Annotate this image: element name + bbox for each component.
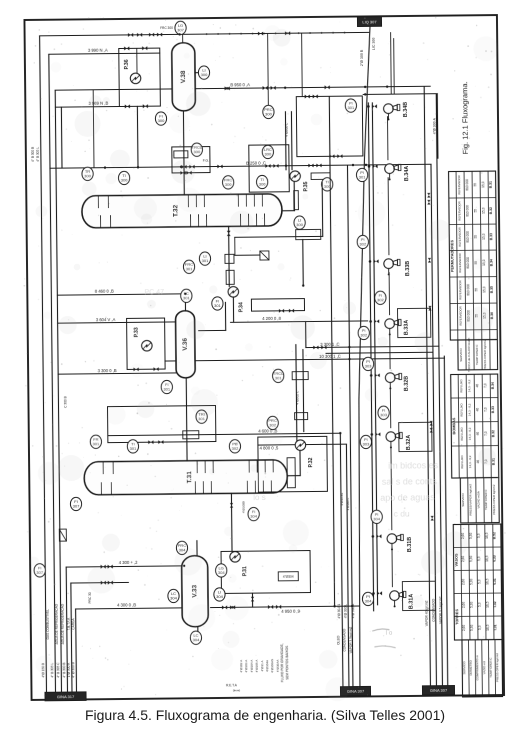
svg-text:4"Ø300 C: 4"Ø300 C [285, 122, 289, 137]
svg-text:46: 46 [476, 432, 480, 436]
svg-text:GAS COMBUSTIVEL: GAS COMBUSTIVEL [46, 609, 50, 640]
svg-text:4"Ø302 C: 4"Ø302 C [295, 390, 299, 405]
svg-text:DIAMETRO: DIAMETRO [469, 659, 473, 675]
svg-text:7,0: 7,0 [484, 431, 488, 436]
svg-text:SERVICO: SERVICO [459, 348, 463, 362]
svg-text:301: 301 [93, 441, 101, 446]
svg-text:c du: c du [394, 508, 410, 518]
svg-text:V.36: V.36 [182, 338, 189, 351]
svg-text:5,3: 5,3 [478, 602, 482, 607]
svg-text:810 000: 810 000 [466, 284, 470, 296]
svg-text:CARGA: CARGA [71, 617, 75, 629]
svg-text:VAPOR 3,5 kg/cm2: VAPOR 3,5 kg/cm2 [439, 596, 443, 624]
svg-text:B.33B: B.33B [405, 261, 411, 276]
svg-text:302: 302 [359, 242, 367, 247]
svg-text:B.33A: B.33A [404, 320, 410, 335]
svg-text:55: 55 [474, 235, 478, 239]
svg-text:B.34B: B.34B [403, 102, 409, 117]
svg-text:301: 301 [130, 446, 138, 451]
svg-text:REFERVEDOR: REFERVEDOR [457, 175, 461, 194]
svg-text:307: 307 [73, 504, 81, 509]
svg-text:15,0: 15,0 [482, 286, 486, 292]
svg-text:810 000: 810 000 [466, 231, 470, 243]
svg-text:REFLUXO: REFLUXO [459, 402, 463, 416]
svg-text:16,5: 16,5 [485, 555, 489, 561]
svg-text:Fig. 12.1 Fluxograma.: Fig. 12.1 Fluxograma. [460, 81, 470, 154]
svg-text:3 990 N ,A: 3 990 N ,A [88, 48, 108, 53]
svg-text:810 000: 810 000 [466, 257, 470, 269]
svg-text:(leve): (leve) [233, 688, 241, 692]
svg-text:301: 301 [348, 105, 356, 110]
svg-text:AGUA DE REFRIGERACAO: AGUA DE REFRIGERACAO [61, 603, 65, 644]
svg-text:COMPRIMENTO m: COMPRIMENTO m [475, 655, 479, 681]
svg-text:GINA 307: GINA 307 [430, 688, 448, 693]
svg-text:F.G.: F.G. [203, 159, 209, 163]
svg-text:300: 300 [193, 149, 201, 154]
svg-text:4" B 300 B: 4" B 300 B [31, 147, 35, 162]
svg-text:46: 46 [476, 408, 480, 412]
svg-text:P.34: P.34 [238, 302, 244, 312]
svg-text:5,3: 5,3 [477, 579, 481, 584]
svg-text:LIQ 307: LIQ 307 [362, 19, 377, 24]
svg-text:2,60: 2,60 [461, 579, 465, 585]
svg-text:300: 300 [84, 173, 92, 178]
svg-text:4 200 0 ,8: 4 200 0 ,8 [262, 316, 281, 321]
svg-text:304: 304 [250, 514, 258, 519]
svg-text:PRESS OPER kg/cm2: PRESS OPER kg/cm2 [483, 339, 487, 369]
svg-text:810 000: 810 000 [465, 179, 469, 191]
svg-text:B.32A: B.32A [406, 435, 412, 450]
svg-text:2,60: 2,60 [462, 625, 466, 631]
svg-text:303: 303 [380, 412, 388, 417]
svg-text:PRESS OPER kg/cm2: PRESS OPER kg/cm2 [495, 653, 499, 682]
svg-text:14,3 - 9,2: 14,3 - 9,2 [467, 403, 471, 416]
svg-text:TORRES: TORRES [455, 609, 459, 625]
svg-text:5,3: 5,3 [477, 533, 481, 538]
svg-text:4" B 305 L: 4" B 305 L [36, 147, 40, 162]
svg-text:REFLUXO: REFLUXO [460, 454, 464, 468]
svg-text:302: 302 [232, 446, 240, 451]
svg-text:TEMP OPER C: TEMP OPER C [489, 658, 493, 678]
svg-text:300: 300 [201, 72, 209, 77]
svg-text:PRC 30: PRC 30 [88, 592, 92, 603]
svg-text:301: 301 [359, 175, 367, 180]
svg-text:4"Ø31 A: 4"Ø31 A [260, 660, 264, 671]
svg-text:VAZIO m3: VAZIO m3 [482, 661, 486, 675]
svg-text:301: 301 [183, 295, 191, 300]
svg-text:4 300 + ,2: 4 300 + ,2 [119, 560, 138, 565]
svg-text:B 950 0 ,A: B 950 0 ,A [230, 82, 250, 87]
svg-text:apo de aguas: apo de aguas [380, 492, 435, 503]
svg-text:PERMUTADORES: PERMUTADORES [450, 240, 454, 273]
svg-text:P.32: P.32 [308, 457, 314, 467]
svg-text:304: 304 [170, 596, 178, 601]
svg-text:4 950 0 ,9: 4 950 0 ,9 [281, 609, 300, 614]
svg-text:3 300 1 ,C: 3 300 1 ,C [320, 342, 339, 347]
svg-text:SERVICO: SERVICO [462, 661, 466, 675]
svg-text:15,0: 15,0 [481, 207, 485, 213]
svg-text:55: 55 [473, 209, 477, 213]
svg-text:5,3: 5,3 [478, 625, 482, 630]
svg-text:TROCA de CALOR kcal/h: TROCA de CALOR kcal/h [467, 337, 471, 372]
svg-text:4"Ø302 A: 4"Ø302 A [239, 660, 243, 673]
svg-text:4" B 300 B: 4" B 300 B [62, 663, 66, 678]
svg-text:B.34: B.34 [490, 259, 494, 266]
svg-text:V.31: V.31 [493, 578, 497, 585]
svg-text:300: 300 [225, 182, 233, 187]
svg-text:55: 55 [474, 288, 478, 292]
svg-text:lo s: lo s [253, 493, 266, 502]
svg-text:4"Ø306AS: 4"Ø306AS [270, 659, 274, 673]
svg-text:B.33: B.33 [489, 233, 493, 240]
svg-text:B.32B: B.32B [404, 376, 410, 391]
svg-text:T.31: T.31 [186, 471, 193, 484]
svg-text:300: 300 [121, 178, 129, 183]
svg-text:301: 301 [202, 258, 210, 263]
svg-text:8 460 0 ,B: 8 460 0 ,B [95, 289, 114, 294]
svg-text:4"Ø304A: 4"Ø304A [265, 660, 269, 672]
svg-text:14,3 - 9,2: 14,3 - 9,2 [467, 379, 471, 392]
svg-text:B.31: B.31 [489, 181, 493, 188]
svg-text:B.34A: B.34A [404, 166, 410, 181]
svg-text:302: 302 [377, 297, 385, 302]
svg-text:P.31: P.31 [242, 566, 248, 576]
svg-text:REFERVEDOR: REFERVEDOR [458, 306, 462, 325]
svg-text:300: 300 [264, 152, 272, 157]
svg-text:VAPOR 40kg/cm2: VAPOR 40kg/cm2 [425, 600, 429, 626]
svg-text:LIC 300: LIC 300 [372, 38, 376, 51]
svg-text:4"Ø 300 L: 4"Ø 300 L [344, 604, 348, 619]
svg-text:VAPOR 3,5kg/cm2: VAPOR 3,5kg/cm2 [349, 627, 353, 654]
svg-text:FLUXO POR GRAVIDADE,: FLUXO POR GRAVIDADE, [280, 643, 284, 682]
svg-text:B.35: B.35 [490, 286, 494, 293]
svg-text:4" B 305 C: 4" B 305 C [56, 662, 60, 678]
svg-text:5,30: 5,30 [469, 556, 473, 562]
svg-text:46: 46 [475, 384, 479, 388]
svg-text:T.B.T.F.A: T.B.T.F.A [67, 617, 71, 630]
svg-text:REFERVEDOR: REFERVEDOR [458, 227, 462, 246]
svg-text:TEMP OPER C: TEMP OPER C [484, 489, 488, 510]
svg-text:301: 301 [214, 303, 222, 308]
svg-text:PC 47: PC 47 [145, 289, 165, 296]
svg-text:4"Ø303 A: 4"Ø303 A [244, 660, 248, 673]
svg-text:14,3 - 9,2: 14,3 - 9,2 [468, 455, 472, 468]
svg-text:REFERVEDOR: REFERVEDOR [458, 253, 462, 272]
svg-text:V.33: V.33 [493, 555, 497, 562]
svg-text:V.33: V.33 [191, 584, 198, 597]
svg-text:T.32: T.32 [172, 204, 179, 217]
svg-text:im bidcos es: im bidcos es [388, 460, 439, 471]
svg-text:GINA 307: GINA 307 [347, 689, 365, 694]
svg-text:4"Ø305 A: 4"Ø305 A [255, 660, 259, 673]
svg-text:B.32: B.32 [489, 207, 493, 214]
svg-text:REFERVEDOR: REFERVEDOR [458, 280, 462, 299]
svg-text:4"Ø30AA: 4"Ø30AA [276, 660, 280, 672]
svg-text:3 300 0 ,B: 3 300 0 ,B [98, 368, 117, 373]
svg-text:4"Ø30-B1: 4"Ø30-B1 [340, 492, 344, 505]
svg-text:5,30: 5,30 [469, 579, 473, 585]
svg-text:5,30: 5,30 [469, 533, 473, 539]
svg-text:16,5: 16,5 [485, 532, 489, 538]
svg-text:304: 304 [218, 570, 226, 575]
svg-text:303: 303 [363, 441, 371, 446]
svg-text:R.E.T.A: R.E.T.A [226, 683, 238, 687]
svg-text:4" Ø 300 B: 4" Ø 300 B [71, 662, 75, 678]
svg-text:300: 300 [265, 112, 273, 117]
svg-text:REFLUXO: REFLUXO [460, 426, 464, 440]
svg-text:307: 307 [36, 570, 44, 575]
svg-text:2"Ø 300 B: 2"Ø 300 B [360, 49, 364, 66]
svg-text:304: 304 [193, 637, 201, 642]
svg-text:5,30: 5,30 [470, 602, 474, 608]
svg-text:REFLUXO: REFLUXO [459, 378, 463, 392]
svg-text:16,5: 16,5 [485, 578, 489, 584]
svg-text:AGUA DE REFRIGERACAO: AGUA DE REFRIGERACAO [55, 603, 59, 644]
svg-text:C 300 B: C 300 B [63, 396, 67, 408]
svg-text:301: 301 [198, 416, 206, 421]
svg-text:sal s de conts: sal s de conts [382, 476, 438, 487]
svg-text:304: 304 [365, 598, 373, 603]
svg-text:B.33: B.33 [491, 406, 495, 413]
svg-text:PRESS/VAPOR kg/cm2: PRESS/VAPOR kg/cm2 [469, 484, 473, 516]
svg-text:307: 307 [177, 27, 185, 32]
svg-text:B.34: B.34 [491, 382, 495, 389]
svg-text:304: 304 [373, 516, 381, 521]
svg-text:REFERVEDOR: REFERVEDOR [457, 201, 461, 220]
svg-text:810 000: 810 000 [465, 205, 469, 217]
svg-text:B.52: B.52 [492, 532, 496, 539]
svg-text:FRC 300: FRC 300 [160, 26, 173, 30]
svg-text:304: 304 [216, 594, 224, 599]
svg-text:300: 300 [259, 182, 267, 187]
svg-text:55: 55 [473, 183, 477, 187]
svg-text:B.32: B.32 [491, 430, 495, 437]
svg-text:B.31B: B.31B [407, 537, 413, 552]
svg-text:T.32: T.32 [493, 601, 497, 608]
svg-text:BOMBAS: BOMBAS [452, 417, 456, 434]
svg-text:4"Ø 300 A: 4"Ø 300 A [432, 117, 436, 134]
svg-text:P.36: P.36 [124, 59, 130, 69]
svg-text:SEM PONTOS BAIXOS: SEM PONTOS BAIXOS [285, 646, 289, 680]
svg-text:302: 302 [360, 333, 368, 338]
svg-text:l o: l o [386, 631, 393, 637]
svg-text:5,3: 5,3 [477, 556, 481, 561]
svg-text:7,0: 7,0 [484, 407, 488, 412]
svg-text:15,0: 15,0 [482, 233, 486, 239]
svg-text:7,0: 7,0 [483, 383, 487, 388]
svg-text:P.35: P.35 [303, 181, 309, 191]
svg-text:2,60: 2,60 [462, 602, 466, 608]
svg-text:4 300 0 ,B: 4 300 0 ,B [117, 602, 136, 607]
svg-text:301: 301 [275, 375, 283, 380]
svg-text:SERVICO: SERVICO [461, 493, 465, 507]
svg-text:15,0: 15,0 [481, 181, 485, 187]
svg-text:P.33: P.33 [134, 327, 140, 337]
svg-text:300: 300 [296, 222, 304, 227]
svg-text:2,60: 2,60 [461, 556, 465, 562]
svg-text:4"Ø300 L: 4"Ø300 L [346, 497, 350, 510]
svg-text:14,3 - 9,2: 14,3 - 9,2 [468, 427, 472, 440]
svg-text:301: 301 [186, 266, 194, 271]
svg-text:OLEO: OLEO [336, 635, 340, 644]
svg-text:1"Ø 300 A: 1"Ø 300 A [67, 662, 71, 677]
svg-text:16,5: 16,5 [486, 624, 490, 630]
svg-text:4"Ø 30-B1: 4"Ø 30-B1 [337, 604, 341, 619]
svg-text:VAZAO m3/h: VAZAO m3/h [476, 491, 480, 509]
svg-text:TEMP OPER C: TEMP OPER C [475, 344, 479, 365]
svg-text:GINA 317: GINA 317 [57, 694, 75, 699]
svg-text:T.31: T.31 [493, 624, 497, 631]
svg-text:16,5: 16,5 [486, 601, 490, 607]
svg-text:V.38: V.38 [180, 70, 187, 83]
svg-text:PRESS OPER kg/cm2: PRESS OPER kg/cm2 [492, 484, 496, 514]
svg-text:301: 301 [163, 387, 171, 392]
svg-text:303: 303 [365, 363, 373, 368]
svg-text:4"Ø304 A: 4"Ø304 A [250, 660, 254, 673]
svg-text:CONDENSADO: CONDENSADO [342, 628, 346, 651]
svg-text:4"Ø304: 4"Ø304 [283, 575, 294, 579]
svg-text:300: 300 [158, 118, 166, 123]
